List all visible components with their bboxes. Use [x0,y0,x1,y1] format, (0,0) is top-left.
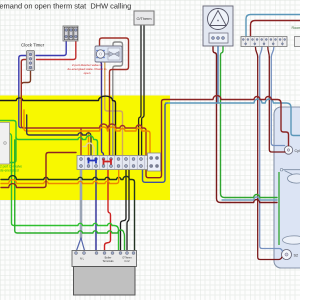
O/Therm box [134,11,154,25]
wire dark red valve loop jog left to strip [100,38,129,156]
wire X2 blue horizontal to room stat [246,15,300,37]
wire maroon S-run up to strip left [1,153,76,188]
clock timer [27,51,35,71]
wire dark blue strip c3 to boiler N [95,170,97,251]
main terminal strip X1 [77,156,160,170]
wire orange across box to strip right, stub to c2 [24,110,150,156]
wire orange bottom run to strip c6 bottom [1,170,119,184]
2-port valve U2 [95,46,122,62]
wire cream to strip [83,143,94,156]
wire maroon timer-red across box to strip right, stub to c1 [21,60,146,156]
immersion S2 [282,250,299,260]
wire black mains across top of junction box [0,96,116,155]
wire gray valve loop jog left to strip [113,42,123,156]
svg-text:O/Therm: O/Therm [137,17,152,21]
wire dark slate to strip [27,115,91,156]
wire Y split pair 1 below X2 strip [255,47,257,58]
svg-text:Boiler: Boiler [105,256,112,260]
svg-text:Clock Timer: Clock Timer [21,43,45,48]
cylinder stat C [284,146,300,154]
wire blue down to cylinder stat [271,57,284,146]
wire green B: down left of box to boiler [10,134,119,251]
small box far right [295,37,304,47]
svg-text:de-energised: de-energised [0,169,19,173]
wire green loop bottom [0,137,16,163]
wire tan valve jog right to strip [105,62,123,156]
wire blue timer down into junction box [19,56,27,128]
svg-text:open: open [84,71,91,75]
wire maroon U under strip right, up and out to cylinder stat [146,96,289,178]
wire pump dark red L down to cylinder [213,43,277,203]
svg-text:t1 t2: t1 t2 [124,259,130,263]
wire dark blue valve to strip c4 [101,62,104,156]
CH valve box (left edge) [0,123,10,165]
boiler terminal strip [72,251,137,267]
boiler body [74,267,136,296]
wire X2 red horizontal to room stat [251,21,301,37]
wire dark red down to S2 [258,57,282,260]
wire blue down to S2 [260,57,283,251]
wire brown timer bottom jog [22,70,31,84]
wire red TB1 to clock timer [37,41,76,60]
wire green A: CH valve loop across to strip [0,121,98,156]
svg-text:Demand on open therm stat DHW: Demand on open therm stat DHW calling [0,2,131,11]
jumper red H on strip [104,159,112,165]
wire light blue to cylinder bottom [222,197,277,200]
wire dark red down to cylinder stat [269,57,285,152]
svg-text:S2: S2 [294,254,299,258]
wire pump green earth down to cylinder [221,43,278,198]
wire red strip to boiler L [105,170,111,251]
svg-text:Terminals: Terminals [102,259,114,263]
pump P1 [203,6,233,46]
junction box (yellow) [0,96,170,201]
wire black pair strip to boiler opentherm [121,170,127,251]
wire blue TB1 to clock timer [36,41,66,56]
wire gray flex strip c1 to boiler [80,170,83,239]
terminal block TB1 top-left [63,26,78,41]
wire blue U under strip right, up and out [143,103,168,182]
wire light blue N out to cylinder [166,99,301,136]
svg-text:Room: Room [292,26,301,30]
jumper blue H on strip [89,158,97,164]
wire Y split pair 2 below X2 strip [268,47,270,58]
wire green C: down to boiler [15,140,125,251]
svg-text:N L: N L [80,257,85,261]
svg-text:Cyl: Cyl [295,149,300,153]
hot water cylinder [274,107,306,268]
svg-text:OTherm: OTherm [122,256,132,260]
aux terminal box at strip right end [148,153,161,171]
wire black opentherm pair down to strip [139,25,141,156]
wire pump blue N tee [217,43,219,103]
strip X1 screws [80,158,158,168]
wire black bottom run across to boiler right [1,176,135,251]
top right terminal strip X2 [241,37,287,47]
